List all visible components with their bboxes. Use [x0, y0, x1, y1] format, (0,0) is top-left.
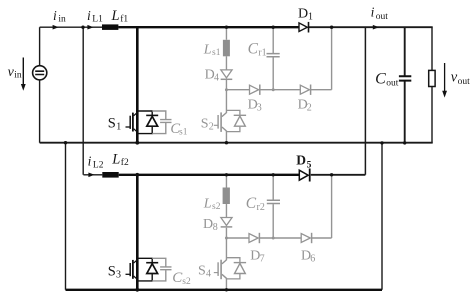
svg-text:in: in: [58, 15, 66, 25]
svg-text:S: S: [201, 117, 209, 132]
svg-text:1: 1: [308, 12, 313, 23]
svg-text:s2: s2: [212, 202, 221, 212]
svg-text:s1: s1: [212, 48, 221, 58]
svg-text:4: 4: [214, 73, 219, 84]
svg-text:L2: L2: [93, 161, 104, 171]
svg-text:i: i: [87, 8, 91, 23]
svg-text:f1: f1: [120, 14, 128, 25]
svg-text:out: out: [386, 78, 399, 88]
svg-text:S: S: [108, 116, 116, 132]
svg-text:6: 6: [310, 254, 315, 265]
svg-text:L: L: [203, 43, 212, 58]
svg-text:4: 4: [206, 269, 211, 280]
svg-text:D: D: [298, 7, 308, 22]
svg-text:i: i: [53, 8, 57, 23]
svg-text:s2: s2: [182, 277, 191, 287]
svg-text:L: L: [111, 152, 120, 168]
svg-text:L: L: [203, 197, 212, 212]
svg-text:C: C: [248, 41, 259, 58]
svg-text:1: 1: [116, 122, 121, 133]
svg-text:2: 2: [307, 103, 312, 114]
svg-text:3: 3: [116, 270, 121, 281]
svg-text:S: S: [108, 264, 116, 280]
svg-text:2: 2: [209, 122, 214, 133]
svg-text:i: i: [88, 154, 92, 169]
svg-text:S: S: [198, 264, 206, 279]
svg-text:in: in: [14, 70, 22, 80]
svg-text:C: C: [246, 195, 257, 212]
svg-text:7: 7: [260, 254, 265, 265]
svg-text:D: D: [296, 153, 306, 168]
svg-text:D: D: [203, 217, 213, 232]
svg-text:r1: r1: [258, 48, 266, 59]
svg-text:r2: r2: [257, 202, 265, 213]
svg-text:L: L: [111, 8, 120, 24]
svg-text:out: out: [458, 77, 471, 87]
svg-text:f2: f2: [121, 157, 129, 168]
svg-text:L1: L1: [92, 15, 103, 25]
svg-text:8: 8: [213, 222, 218, 233]
svg-text:5: 5: [307, 161, 312, 171]
svg-text:out: out: [376, 12, 389, 22]
svg-text:s1: s1: [179, 127, 188, 137]
svg-text:C: C: [375, 70, 386, 87]
svg-text:i: i: [371, 5, 375, 20]
svg-text:3: 3: [257, 103, 262, 114]
